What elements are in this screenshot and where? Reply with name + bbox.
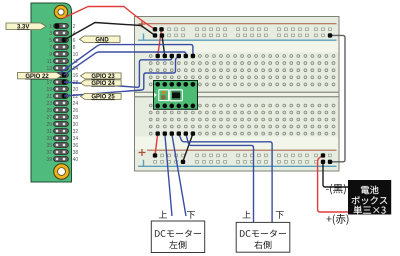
svg-text:13: 13 (46, 66, 52, 72)
svg-text:5: 5 (49, 38, 52, 44)
breadboard light band lower (135, 137, 339, 150)
svg-text:23: 23 (46, 101, 52, 107)
svg-text:1: 1 (49, 24, 52, 30)
svg-text:26: 26 (73, 108, 79, 114)
wire red bottom + rail to battery (318, 155, 348, 212)
module pins top row (155, 82, 195, 87)
svg-text:38: 38 (73, 150, 79, 156)
bottom rail blue line (138, 165, 337, 167)
svg-text:GPIO 23: GPIO 23 (91, 74, 115, 80)
raspberry pi board (31, 3, 72, 182)
top rail red line (147, 23, 337, 25)
junction dots row a (156, 54, 196, 58)
svg-text:7: 7 (49, 45, 52, 51)
svg-text:27: 27 (46, 115, 52, 121)
junction dots row j (156, 131, 196, 135)
motor driver module U1 (154, 81, 198, 110)
power rail holes (154, 28, 332, 163)
module pins bottom row (155, 104, 195, 109)
svg-text:10: 10 (73, 52, 79, 58)
svg-text:37: 37 (46, 150, 52, 156)
svg-text:2: 2 (73, 24, 76, 30)
pin numbers 1-40 (46, 24, 78, 163)
svg-text:30: 30 (73, 122, 79, 128)
bottom rail minus symbol (143, 160, 145, 166)
DC motor right box (236, 222, 290, 252)
DC motor left text (155, 229, 201, 237)
main grid holes (149, 55, 335, 135)
mounting hole top (54, 5, 67, 18)
svg-text:16: 16 (73, 73, 79, 79)
svg-text:GND: GND (95, 37, 109, 43)
label ue (up) left motor (159, 211, 167, 219)
svg-text:36: 36 (73, 143, 79, 149)
top rail blue line (138, 39, 337, 41)
battery box (348, 180, 391, 215)
wire blue GPIO22 pin15 to row a col6 (57, 45, 193, 75)
label shita (down) left motor (187, 211, 195, 219)
svg-text:33: 33 (46, 136, 52, 142)
svg-text:21: 21 (46, 94, 52, 100)
module left edge marker (154, 93, 157, 97)
svg-text:29: 29 (46, 122, 52, 128)
label 3.3V (pin 1) (6, 23, 46, 30)
svg-text:GPIO 22: GPIO 22 (25, 74, 49, 80)
wire black jumper row j col6 to bottom - rail (183, 134, 193, 162)
svg-text:39: 39 (46, 157, 52, 163)
svg-text:3: 3 (49, 31, 52, 37)
svg-text:GPIO 25: GPIO 25 (91, 95, 115, 101)
label shita (down) right motor (276, 211, 284, 219)
wire black GND pin6 to top - rail (64, 23, 155, 41)
top rail minus symbol (143, 34, 145, 41)
label plus aka (326, 214, 348, 225)
wire red jumper row j col1 to bottom + rail (155, 134, 158, 156)
mounting hole bottom (54, 164, 70, 180)
wire black jumper top - rail to row a col2 (162, 35, 165, 56)
wire blue motor right up: row j col5 across and down (186, 134, 254, 222)
svg-text:25: 25 (46, 108, 52, 114)
label GPIO 23 (pin 16) (81, 73, 122, 80)
DC motor right text (240, 229, 286, 237)
svg-text:8: 8 (73, 45, 76, 51)
label GPIO 24 (pin 18) (81, 80, 122, 87)
label GND (pin 6) (80, 36, 121, 43)
svg-text:GPIO 24: GPIO 24 (91, 81, 115, 87)
wire blue motor right down: row j col4 across and down (179, 134, 272, 222)
svg-text:40: 40 (73, 157, 79, 163)
pin header J8 (20x2) (54, 24, 69, 162)
wire gray top - rail to bottom - rail (330, 35, 345, 161)
bottom rail red line (147, 149, 337, 151)
svg-text:28: 28 (73, 115, 79, 121)
svg-text:24: 24 (73, 101, 79, 107)
label GPIO 22 (pin 15) (18, 72, 62, 79)
wire blue GPIO23 pin16 to row a col5 (64, 52, 186, 75)
breadboard light band upper (135, 42, 339, 53)
wire black bottom - rail to battery (323, 162, 348, 187)
label minus kuro (326, 184, 346, 195)
breadboard center channel (135, 92, 339, 97)
svg-text:3.3V: 3.3V (17, 24, 29, 30)
top rail plus symbol (139, 21, 146, 28)
wire red jumper top + rail to row a col1 (158, 29, 162, 56)
label GPIO 25 (pin 22) (81, 93, 122, 100)
svg-text:6: 6 (73, 38, 76, 44)
svg-text:19: 19 (46, 87, 52, 93)
bottom rail plus symbol (139, 149, 146, 156)
svg-text:34: 34 (73, 136, 79, 142)
DC motor left box (151, 221, 204, 253)
svg-text:20: 20 (73, 87, 79, 93)
wire blue GPIO25 pin22 to row a col4 (64, 56, 179, 96)
wire blue motor left up: row j col2 down (165, 134, 172, 216)
junction dots on power rails (153, 27, 332, 164)
svg-text:11: 11 (47, 59, 52, 65)
battery text line1 (361, 186, 379, 194)
svg-text:17: 17 (46, 80, 52, 86)
svg-text:9: 9 (49, 52, 52, 58)
breadboard body (135, 17, 340, 172)
label ue (up) right motor (243, 211, 251, 219)
wire blue motor left down: row j col3 down (172, 134, 186, 216)
battery text line3 (354, 206, 386, 215)
wire red 3.3V pin1 to top + rail (63, 7, 156, 30)
module left sub-component (159, 90, 169, 101)
svg-text:32: 32 (73, 129, 79, 135)
wire blue GPIO24 pin18 to row a col3 (64, 56, 172, 87)
svg-text:31: 31 (46, 129, 52, 135)
module IC chip (170, 90, 183, 101)
battery text line2 (352, 196, 388, 204)
svg-text:35: 35 (46, 143, 52, 149)
